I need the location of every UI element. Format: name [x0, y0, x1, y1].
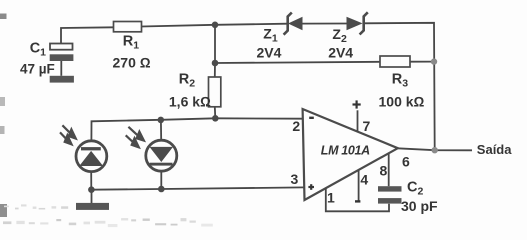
photodiode D1	[76, 141, 107, 172]
node B (rail 2 / R2)	[212, 60, 219, 67]
capacitor C2	[378, 186, 402, 203]
pin 1 wire to C2 bottom	[326, 188, 389, 211]
svg-text:3: 3	[291, 171, 299, 187]
pin 7 positive supply	[353, 100, 361, 131]
svg-text:2V4: 2V4	[257, 44, 282, 60]
wire node F down to ground	[91, 190, 93, 204]
zener diode Z1	[284, 13, 303, 35]
svg-text:100 kΩ: 100 kΩ	[379, 93, 425, 109]
wire top rail: C1 riser to R1	[61, 27, 114, 43]
svg-text:6: 6	[402, 154, 410, 170]
svg-text:2: 2	[292, 118, 300, 134]
wire node D to op-amp pin 2	[215, 117, 302, 119]
wire node B to R2 top	[214, 63, 216, 77]
node C (R3 / right rail, gray)	[431, 58, 437, 64]
wire node A down to node B	[214, 25, 216, 63]
minus sign at pin 2	[309, 117, 314, 119]
op-amp U1	[303, 109, 398, 200]
svg-text:LM 101A: LM 101A	[321, 144, 370, 158]
wire D2 bottom to node G	[160, 171, 162, 189]
node A (top rail / R2 branch)	[212, 22, 219, 29]
wire node D left to D1 top	[91, 118, 215, 141]
svg-text:Saída: Saída	[477, 142, 512, 157]
node D (rail 3 / R2 bottom)	[212, 115, 219, 122]
resistor R3	[380, 56, 410, 67]
svg-text:1,6 kΩ: 1,6 kΩ	[169, 94, 211, 110]
light arrows into D2	[126, 127, 144, 148]
resistor R1	[114, 22, 142, 32]
svg-text:47 µF: 47 µF	[20, 62, 55, 77]
wire node A to Z1	[215, 24, 288, 25]
wire D1 bottom to node F	[90, 172, 92, 190]
svg-text:1: 1	[327, 189, 335, 205]
ground below D1	[76, 203, 109, 210]
node H (output / right rail, gray)	[432, 147, 438, 153]
node G (D2 bottom / rail 4)	[158, 186, 165, 193]
wire op-amp output to Saída	[398, 148, 473, 150]
capacitor C1	[50, 44, 74, 76]
svg-text:2V4: 2V4	[328, 44, 353, 60]
wire Z1 to Z2	[303, 23, 347, 25]
ground below C1	[50, 76, 74, 83]
wire R2 bottom to node D	[214, 107, 217, 119]
svg-text:8: 8	[380, 163, 388, 179]
resistor R2	[209, 77, 221, 107]
scan noise (decorative)	[0, 14, 213, 228]
light arrows into D1	[60, 125, 76, 144]
pin 8 wire to C2 top	[388, 154, 390, 186]
wire node E down to D2 top	[160, 120, 162, 141]
node E (rail 3 / D2 top)	[158, 117, 165, 124]
node F (D1 bottom / rail 4)	[88, 186, 95, 193]
zener diode Z2	[347, 12, 368, 34]
wire node B to R3 left	[215, 62, 380, 63]
pin 4 negative supply	[355, 170, 360, 203]
wire bottom rail node F through node G to op-amp pin 3	[91, 187, 304, 189]
wire R1 to node A	[142, 25, 216, 27]
wire Z2 to top-right corner, down right rail	[364, 23, 435, 150]
plus sign at pin 3	[308, 184, 314, 190]
photodiode D2	[146, 140, 177, 171]
wire R3 right to node C	[410, 61, 434, 63]
svg-text:270 Ω: 270 Ω	[113, 54, 151, 70]
svg-text:30 pF: 30 pF	[401, 198, 438, 214]
svg-text:7: 7	[363, 118, 371, 134]
svg-text:4: 4	[360, 172, 368, 188]
